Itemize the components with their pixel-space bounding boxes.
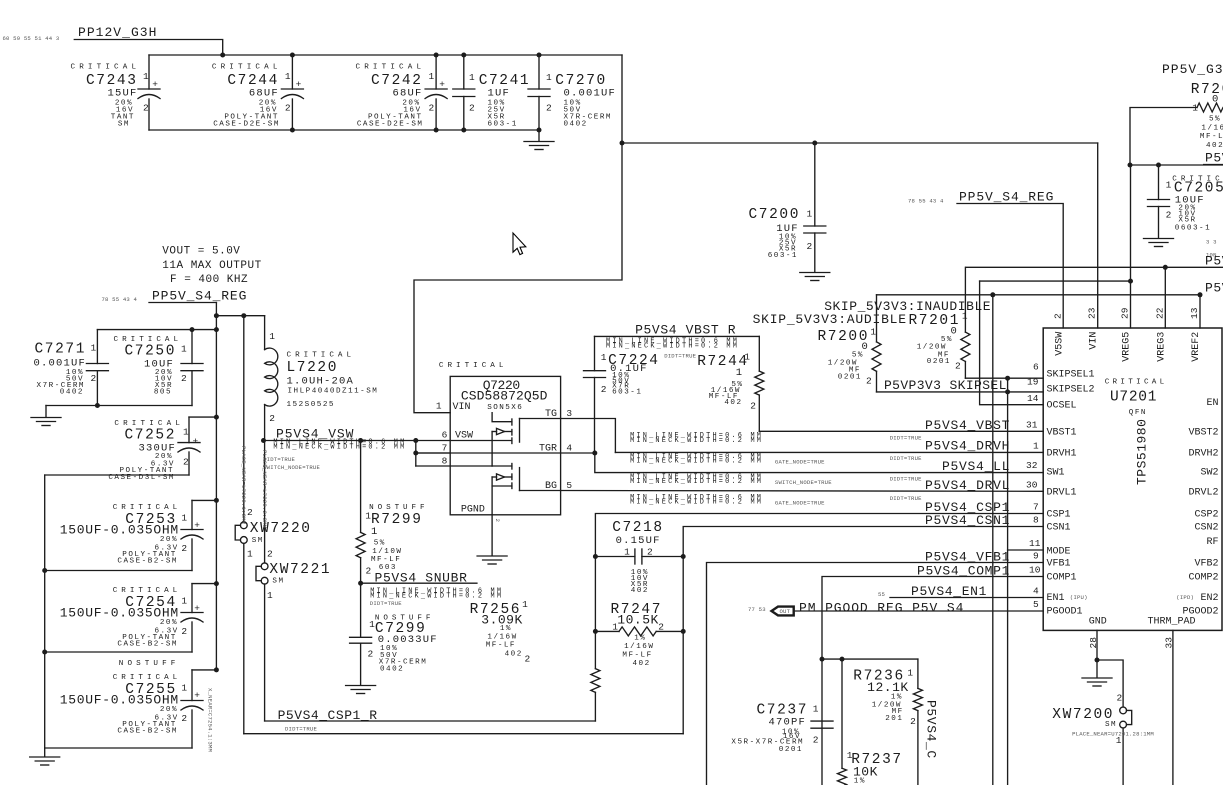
- svg-text:1: 1: [624, 547, 630, 558]
- svg-text:SON5X6: SON5X6: [487, 404, 523, 412]
- svg-text:2: 2: [285, 103, 291, 114]
- svg-text:P5V: P5V: [1205, 253, 1223, 268]
- svg-text:1: 1: [744, 352, 750, 363]
- svg-text:470PF: 470PF: [768, 717, 806, 729]
- svg-text:P5VS4_DRVL: P5VS4_DRVL: [925, 478, 1010, 493]
- svg-text:2: 2: [494, 519, 501, 523]
- svg-text:CSD58872Q5D: CSD58872Q5D: [461, 389, 548, 404]
- svg-text:11: 11: [1029, 538, 1041, 549]
- svg-text:CASE-D2E-SM: CASE-D2E-SM: [357, 121, 424, 129]
- svg-text:2: 2: [525, 654, 531, 665]
- svg-text:SW2: SW2: [1200, 468, 1218, 479]
- svg-text:1: 1: [546, 72, 552, 83]
- svg-text:P5VS4_CSN1: P5VS4_CSN1: [925, 513, 1010, 528]
- svg-text:+: +: [194, 520, 200, 531]
- svg-text:MIN_NECK_WIDTH=0.2 MM: MIN_NECK_WIDTH=0.2 MM: [273, 443, 406, 451]
- svg-text:2: 2: [750, 401, 756, 412]
- svg-text:+: +: [194, 690, 200, 701]
- svg-text:L7220: L7220: [287, 360, 339, 376]
- svg-text:8: 8: [442, 456, 448, 467]
- svg-text:1UF: 1UF: [488, 88, 511, 100]
- svg-text:VREF2: VREF2: [1191, 332, 1202, 362]
- svg-text:28: 28: [1088, 637, 1099, 649]
- svg-text:1/10W: 1/10W: [372, 548, 402, 556]
- svg-text:P5VS4_COMP1: P5VS4_COMP1: [917, 563, 1010, 578]
- svg-text:GATE_NODE=TRUE: GATE_NODE=TRUE: [775, 499, 825, 506]
- svg-text:2: 2: [1166, 210, 1172, 221]
- svg-text:CSN1: CSN1: [1047, 523, 1071, 534]
- svg-text:1: 1: [365, 511, 371, 522]
- svg-text:P5V: P5V: [1205, 151, 1223, 166]
- svg-text:402: 402: [724, 399, 742, 407]
- svg-text:1%: 1%: [500, 625, 512, 633]
- svg-text:DIDT=TRUE: DIDT=TRUE: [890, 475, 922, 482]
- svg-text:0201: 0201: [927, 358, 951, 366]
- svg-text:1/20W: 1/20W: [917, 344, 947, 352]
- svg-text:C7250: C7250: [124, 344, 176, 360]
- svg-text:2: 2: [429, 103, 435, 114]
- svg-text:+: +: [152, 79, 158, 90]
- svg-text:MF-LF: MF-LF: [1200, 133, 1223, 141]
- svg-text:68UF: 68UF: [249, 88, 279, 100]
- svg-text:31: 31: [1026, 420, 1038, 431]
- svg-text:1: 1: [247, 549, 253, 560]
- svg-text:+: +: [194, 603, 200, 614]
- svg-text:152S0525: 152S0525: [287, 401, 335, 409]
- svg-text:11A MAX OUTPUT: 11A MAX OUTPUT: [162, 260, 261, 272]
- svg-text:DIDT=TRUE: DIDT=TRUE: [370, 600, 402, 607]
- svg-text:VIN: VIN: [453, 402, 471, 413]
- svg-text:PGOOD1: PGOOD1: [1047, 607, 1083, 618]
- svg-text:+: +: [439, 79, 445, 90]
- svg-text:0: 0: [1212, 94, 1220, 106]
- svg-text:(IPU): (IPU): [1070, 594, 1088, 601]
- svg-text:VSW: VSW: [455, 431, 473, 442]
- svg-text:1: 1: [612, 622, 618, 633]
- svg-text:V5SW: V5SW: [1054, 332, 1065, 356]
- svg-text:2: 2: [807, 241, 813, 252]
- svg-text:68UF: 68UF: [392, 88, 422, 100]
- svg-text:0402: 0402: [564, 121, 588, 129]
- svg-text:1: 1: [181, 344, 187, 355]
- svg-text:0603-1: 0603-1: [1175, 225, 1211, 233]
- svg-text:C7271: C7271: [34, 342, 86, 358]
- svg-text:1: 1: [436, 401, 442, 412]
- svg-text:MF-LF: MF-LF: [486, 641, 516, 649]
- svg-text:CRITICAL: CRITICAL: [1105, 378, 1166, 386]
- svg-text:1: 1: [1033, 441, 1039, 452]
- svg-text:TG: TG: [545, 409, 557, 420]
- svg-text:2: 2: [183, 457, 189, 468]
- svg-text:33: 33: [1164, 637, 1175, 649]
- svg-text:MIN_NECK_WIDTH=0.2 MM: MIN_NECK_WIDTH=0.2 MM: [606, 342, 739, 350]
- svg-text:10.5K: 10.5K: [617, 613, 659, 628]
- svg-text:2: 2: [813, 734, 819, 745]
- svg-text:P5VP3V3 SKIPSEL: P5VP3V3 SKIPSEL: [884, 378, 1007, 393]
- svg-text:P5VS4_VFB1: P5VS4_VFB1: [925, 549, 1010, 564]
- svg-text:2: 2: [181, 626, 187, 637]
- svg-text:CASE-B2-SM: CASE-B2-SM: [117, 558, 178, 566]
- svg-text:5: 5: [1033, 599, 1039, 610]
- svg-text:SM: SM: [118, 121, 130, 129]
- svg-text:PP5V_G3H: PP5V_G3H: [1162, 62, 1223, 77]
- svg-text:MIN_NECK_WIDTH=0.2 MM: MIN_NECK_WIDTH=0.2 MM: [630, 478, 763, 486]
- svg-text:23: 23: [1087, 307, 1098, 319]
- svg-text:VBST1: VBST1: [1047, 427, 1077, 438]
- svg-text:1: 1: [181, 683, 187, 694]
- svg-text:5%: 5%: [1209, 116, 1221, 124]
- svg-text:PGND: PGND: [461, 505, 485, 516]
- svg-text:P5VS4_VBST: P5VS4_VBST: [925, 418, 1010, 433]
- svg-text:MIN_NECK_WIDTH=0.2 MM: MIN_NECK_WIDTH=0.2 MM: [630, 458, 763, 466]
- svg-text:C7200: C7200: [748, 207, 800, 223]
- svg-text:PP12V_G3H: PP12V_G3H: [78, 25, 157, 40]
- svg-text:DIDT=TRUE: DIDT=TRUE: [890, 495, 922, 502]
- svg-text:PP5V_S4_REG: PP5V_S4_REG: [152, 289, 247, 304]
- svg-text:DIDT=TRUE: DIDT=TRUE: [890, 455, 922, 462]
- svg-text:1: 1: [91, 343, 97, 354]
- svg-text:PLACE_NEAR=L7220.2:3MM: PLACE_NEAR=L7220.2:3MM: [261, 450, 268, 528]
- svg-text:SW1: SW1: [1047, 468, 1065, 479]
- svg-text:SKIP_5V3V3:AUDIBLE: SKIP_5V3V3:AUDIBLE: [753, 312, 907, 327]
- svg-text:P5VS4_SNUBR: P5VS4_SNUBR: [375, 570, 468, 585]
- svg-text:DRVL2: DRVL2: [1188, 487, 1218, 498]
- svg-text:COMP1: COMP1: [1047, 573, 1077, 584]
- svg-text:14: 14: [1027, 393, 1039, 404]
- svg-text:TGR: TGR: [539, 443, 557, 454]
- svg-text:VOUT = 5.0V: VOUT = 5.0V: [162, 246, 240, 258]
- svg-text:SM: SM: [252, 537, 264, 545]
- svg-text:2: 2: [366, 566, 372, 577]
- svg-text:1: 1: [285, 71, 291, 82]
- svg-text:1: 1: [469, 72, 475, 83]
- svg-text:603-1: 603-1: [488, 121, 518, 129]
- svg-text:2: 2: [647, 547, 653, 558]
- svg-text:X_NEAR=C7254.1:3MM: X_NEAR=C7254.1:3MM: [207, 688, 214, 752]
- svg-text:19: 19: [1027, 377, 1039, 388]
- svg-text:1: 1: [183, 427, 189, 438]
- svg-text:1: 1: [181, 513, 187, 524]
- svg-text:DIDT=TRUE: DIDT=TRUE: [664, 353, 696, 360]
- svg-text:MIN_NECK_WIDTH=0.2 MM: MIN_NECK_WIDTH=0.2 MM: [630, 499, 763, 507]
- svg-text:EN: EN: [1206, 398, 1218, 409]
- svg-text:1/16W: 1/16W: [1201, 125, 1223, 133]
- svg-text:PLACE_NEAR=U7201.28:1MM: PLACE_NEAR=U7201.28:1MM: [1072, 731, 1154, 738]
- svg-text:P5V: P5V: [1205, 280, 1223, 295]
- svg-text:603-1: 603-1: [612, 388, 642, 396]
- svg-text:C7252: C7252: [124, 428, 176, 444]
- svg-text:CASE-B2-SM: CASE-B2-SM: [117, 641, 178, 649]
- svg-text:0201: 0201: [838, 373, 862, 381]
- svg-text:+: +: [296, 79, 302, 90]
- svg-text:CASE-D3L-SM: CASE-D3L-SM: [108, 474, 175, 482]
- svg-text:2: 2: [1052, 313, 1063, 319]
- svg-text:1: 1: [1116, 735, 1122, 746]
- svg-text:SKIPSEL1: SKIPSEL1: [1047, 370, 1095, 381]
- svg-text:2: 2: [658, 622, 664, 633]
- svg-text:2: 2: [269, 413, 275, 424]
- svg-text:201: 201: [885, 715, 903, 723]
- svg-text:9: 9: [1033, 551, 1039, 562]
- svg-text:2: 2: [910, 716, 916, 727]
- svg-text:2: 2: [143, 103, 149, 114]
- svg-text:SM: SM: [1105, 721, 1117, 729]
- svg-text:0.001UF: 0.001UF: [33, 358, 86, 370]
- svg-text:SWITCH_NODE=TRUE: SWITCH_NODE=TRUE: [263, 464, 320, 471]
- svg-text:DRVH2: DRVH2: [1188, 448, 1218, 459]
- svg-text:GND: GND: [1089, 617, 1107, 628]
- svg-text:1: 1: [1166, 180, 1172, 191]
- svg-text:RF: RF: [1206, 537, 1218, 548]
- svg-text:402: 402: [505, 650, 523, 658]
- svg-text:1: 1: [371, 526, 379, 538]
- svg-text:8: 8: [1033, 515, 1039, 526]
- svg-text:20%: 20%: [160, 619, 178, 627]
- svg-text:MF-LF: MF-LF: [371, 556, 401, 564]
- svg-text:COMP2: COMP2: [1188, 573, 1218, 584]
- svg-text:29: 29: [1120, 307, 1131, 319]
- svg-text:VFB2: VFB2: [1194, 559, 1218, 570]
- svg-text:7: 7: [442, 443, 448, 454]
- svg-text:R7299: R7299: [371, 512, 423, 528]
- svg-text:XW7220: XW7220: [250, 521, 312, 537]
- svg-text:20%: 20%: [160, 536, 178, 544]
- svg-text:1%: 1%: [854, 778, 866, 785]
- svg-text:PM PGOOD REG P5V S4: PM PGOOD REG P5V S4: [799, 601, 964, 616]
- svg-text:5: 5: [566, 480, 572, 491]
- svg-text:0402: 0402: [380, 666, 404, 674]
- svg-text:30: 30: [1026, 480, 1038, 491]
- svg-text:2: 2: [91, 373, 97, 384]
- svg-text:VFB1: VFB1: [1047, 559, 1071, 570]
- svg-text:C7218: C7218: [612, 520, 664, 536]
- svg-text:2: 2: [181, 543, 187, 554]
- svg-text:1: 1: [907, 668, 913, 679]
- svg-text:OUT: OUT: [780, 608, 791, 615]
- svg-text:1/16W: 1/16W: [624, 643, 654, 651]
- svg-text:3: 3: [566, 408, 572, 419]
- svg-text:XW7221: XW7221: [269, 562, 331, 578]
- svg-text:BG: BG: [545, 481, 557, 492]
- svg-text:+: +: [193, 436, 199, 447]
- svg-text:78 55 43 4: 78 55 43 4: [102, 296, 138, 303]
- svg-text:CASE-D2E-SM: CASE-D2E-SM: [213, 121, 280, 129]
- svg-text:4: 4: [1033, 586, 1039, 597]
- svg-text:2: 2: [546, 103, 552, 114]
- svg-text:DRVH1: DRVH1: [1047, 448, 1077, 459]
- svg-text:P5VS4_EN1: P5VS4_EN1: [911, 584, 987, 599]
- svg-text:SWITCH_NODE=TRUE: SWITCH_NODE=TRUE: [775, 479, 832, 486]
- svg-text:10: 10: [1029, 565, 1041, 576]
- svg-text:CSP2: CSP2: [1194, 510, 1218, 521]
- svg-text:0402: 0402: [60, 389, 84, 397]
- svg-text:1: 1: [813, 704, 819, 715]
- svg-text:60 59 55 51 44 3: 60 59 55 51 44 3: [3, 35, 60, 42]
- svg-text:7: 7: [1033, 502, 1039, 513]
- svg-text:1: 1: [522, 599, 528, 610]
- svg-text:PLACE_NEAR=L7220.1:3MM: PLACE_NEAR=L7220.1:3MM: [240, 446, 247, 524]
- svg-text:78 55 43 4: 78 55 43 4: [908, 198, 944, 205]
- svg-text:2: 2: [181, 713, 187, 724]
- svg-text:603-1: 603-1: [768, 252, 798, 260]
- svg-text:VIN: VIN: [1089, 332, 1100, 350]
- svg-text:P5VS4_LL: P5VS4_LL: [942, 459, 1010, 474]
- svg-text:2: 2: [247, 507, 253, 518]
- svg-text:CSP1: CSP1: [1047, 510, 1071, 521]
- svg-text:VBST2: VBST2: [1188, 427, 1218, 438]
- svg-text:55: 55: [878, 591, 885, 598]
- svg-text:MIN_NECK_WIDTH=0.2 MM: MIN_NECK_WIDTH=0.2 MM: [630, 437, 763, 445]
- svg-text:IHLP4040DZ11-SM: IHLP4040DZ11-SM: [288, 387, 379, 395]
- svg-text:CASE-B2-SM: CASE-B2-SM: [117, 728, 178, 736]
- svg-text:1/16W: 1/16W: [487, 634, 517, 642]
- svg-text:F = 400 KHZ: F = 400 KHZ: [170, 274, 248, 286]
- svg-text:0.001UF: 0.001UF: [564, 88, 617, 100]
- svg-text:2: 2: [866, 376, 872, 387]
- svg-text:402: 402: [631, 587, 649, 595]
- svg-text:DIDT=TRUE: DIDT=TRUE: [285, 726, 317, 733]
- svg-text:4: 4: [566, 442, 572, 453]
- svg-text:0.15UF: 0.15UF: [616, 535, 661, 547]
- svg-text:5%: 5%: [852, 352, 864, 360]
- svg-text:MF-LF: MF-LF: [622, 651, 652, 659]
- svg-text:P5VS4_C: P5VS4_C: [924, 700, 939, 759]
- svg-text:EN1: EN1: [1047, 593, 1065, 604]
- svg-text:15UF: 15UF: [107, 88, 137, 100]
- svg-text:5%: 5%: [374, 540, 386, 548]
- svg-text:THRM_PAD: THRM_PAD: [1148, 617, 1196, 628]
- svg-text:2: 2: [181, 373, 187, 384]
- svg-text:VREG3: VREG3: [1156, 332, 1167, 362]
- svg-text:1: 1: [269, 331, 275, 342]
- svg-text:6: 6: [442, 430, 448, 441]
- svg-text:1: 1: [1192, 103, 1198, 114]
- svg-text:NOSTUFF: NOSTUFF: [369, 504, 426, 512]
- svg-text:1: 1: [143, 71, 149, 82]
- svg-text:402: 402: [1206, 142, 1223, 150]
- svg-text:1: 1: [807, 209, 813, 220]
- svg-text:U7201: U7201: [1110, 390, 1158, 406]
- svg-text:1: 1: [267, 590, 273, 601]
- svg-text:20%: 20%: [160, 706, 178, 714]
- svg-text:1%: 1%: [634, 634, 646, 642]
- svg-text:P5VS4_DRVH: P5VS4_DRVH: [925, 439, 1010, 454]
- svg-text:1: 1: [962, 311, 968, 322]
- svg-text:VREG5: VREG5: [1122, 332, 1133, 362]
- svg-text:3 3: 3 3: [1206, 239, 1217, 246]
- svg-text:1%: 1%: [891, 694, 903, 702]
- svg-text:GATE_NODE=TRUE: GATE_NODE=TRUE: [775, 458, 825, 465]
- svg-text:P5VS4 VBST R: P5VS4 VBST R: [635, 323, 736, 338]
- svg-text:0201: 0201: [779, 746, 803, 754]
- svg-text:2: 2: [1117, 693, 1123, 704]
- svg-text:1: 1: [429, 71, 435, 82]
- svg-text:MODE: MODE: [1047, 547, 1071, 558]
- svg-text:CSN2: CSN2: [1194, 523, 1218, 534]
- svg-text:X5R: X5R: [1178, 217, 1196, 225]
- svg-text:SKIPSEL2: SKIPSEL2: [1047, 385, 1095, 396]
- svg-text:OCSEL: OCSEL: [1047, 401, 1077, 412]
- svg-text:1.0UH-20A: 1.0UH-20A: [287, 376, 355, 388]
- svg-text:1: 1: [601, 352, 607, 363]
- svg-text:2: 2: [601, 384, 607, 395]
- svg-text:DIDT=TRUE: DIDT=TRUE: [890, 435, 922, 442]
- svg-text:(IPD): (IPD): [1176, 594, 1194, 601]
- svg-text:EN2: EN2: [1200, 593, 1218, 604]
- svg-text:13: 13: [1189, 307, 1200, 319]
- svg-text:2: 2: [368, 649, 374, 660]
- svg-text:P5VS4_CSP1_R: P5VS4_CSP1_R: [278, 708, 378, 723]
- svg-text:1: 1: [736, 367, 744, 379]
- svg-text:SM: SM: [272, 578, 284, 586]
- svg-text:QFN: QFN: [1129, 409, 1147, 417]
- svg-text:2: 2: [267, 549, 273, 560]
- svg-text:PP5V_S4_REG: PP5V_S4_REG: [959, 189, 1054, 204]
- svg-text:2: 2: [469, 103, 475, 114]
- svg-text:1: 1: [870, 327, 876, 338]
- svg-text:2: 2: [955, 361, 961, 372]
- svg-text:TPS51980: TPS51980: [1135, 419, 1150, 485]
- svg-text:805: 805: [154, 389, 172, 397]
- svg-text:NOSTUFF: NOSTUFF: [119, 660, 177, 668]
- svg-text:402: 402: [633, 660, 651, 668]
- svg-text:77 53: 77 53: [748, 606, 766, 613]
- svg-text:1: 1: [181, 596, 187, 607]
- svg-text:22: 22: [1154, 307, 1165, 319]
- svg-text:6: 6: [1033, 362, 1039, 373]
- svg-text:32: 32: [1026, 460, 1038, 471]
- svg-text:1: 1: [369, 619, 375, 630]
- svg-text:DRVL1: DRVL1: [1047, 487, 1077, 498]
